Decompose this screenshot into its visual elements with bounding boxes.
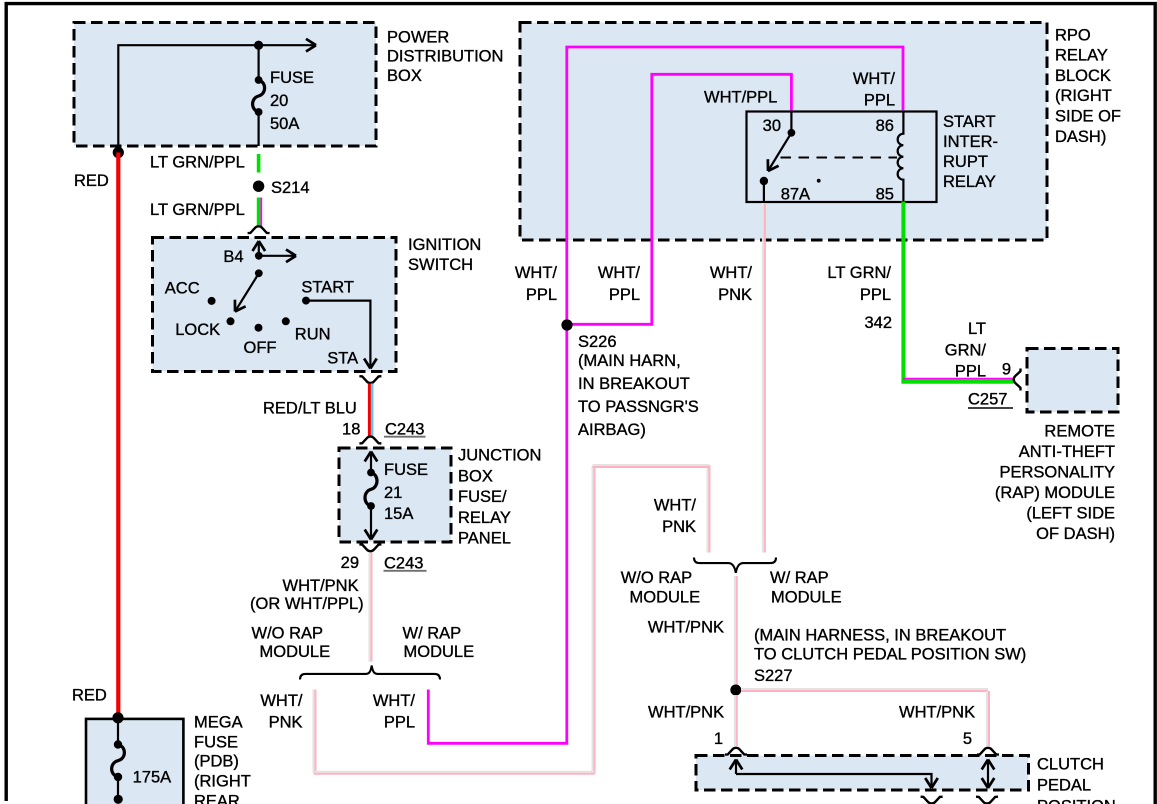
svg-text:WHT/PPL: WHT/PPL	[704, 89, 777, 107]
svg-text:REMOTE: REMOTE	[1044, 423, 1115, 441]
svg-text:START: START	[943, 113, 996, 131]
svg-text:C243: C243	[384, 555, 423, 573]
svg-text:W/O RAP: W/O RAP	[252, 625, 324, 643]
svg-text:B4: B4	[223, 248, 243, 266]
svg-text:SIDE OF: SIDE OF	[1055, 108, 1121, 126]
svg-text:15A: 15A	[384, 505, 413, 523]
svg-text:C257: C257	[968, 391, 1007, 409]
svg-text:C243: C243	[385, 420, 424, 438]
svg-text:IGNITION: IGNITION	[408, 236, 481, 254]
svg-text:RED/LT BLU: RED/LT BLU	[263, 400, 357, 418]
svg-text:POWER: POWER	[387, 28, 449, 46]
svg-text:ANTI-THEFT: ANTI-THEFT	[1019, 443, 1115, 461]
svg-text:PPL: PPL	[864, 92, 895, 110]
svg-text:PNK: PNK	[662, 518, 696, 536]
svg-text:GRN/: GRN/	[945, 342, 987, 360]
svg-text:FUSE: FUSE	[194, 733, 238, 751]
svg-text:LT GRN/PPL: LT GRN/PPL	[150, 201, 245, 219]
svg-text:PPL: PPL	[609, 286, 640, 304]
svg-text:W/ RAP: W/ RAP	[403, 625, 462, 643]
svg-text:20: 20	[270, 92, 288, 110]
svg-text:WHT/: WHT/	[654, 497, 697, 515]
svg-text:STA: STA	[327, 350, 358, 368]
svg-text:CLUTCH: CLUTCH	[1037, 756, 1104, 774]
svg-text:(MAIN HARNESS, IN BREAKOUT: (MAIN HARNESS, IN BREAKOUT	[754, 627, 1006, 645]
svg-text:PPL: PPL	[526, 286, 557, 304]
svg-text:MODULE: MODULE	[771, 589, 842, 607]
svg-text:(LEFT SIDE: (LEFT SIDE	[1026, 505, 1115, 523]
svg-text:5: 5	[963, 730, 972, 748]
svg-text:86: 86	[876, 117, 894, 135]
svg-text:50A: 50A	[270, 115, 299, 133]
svg-text:WHT/: WHT/	[515, 264, 558, 282]
svg-text:DISTRIBUTION: DISTRIBUTION	[387, 48, 503, 66]
svg-text:87A: 87A	[781, 186, 810, 204]
svg-text:175A: 175A	[133, 768, 172, 786]
svg-text:30: 30	[763, 117, 781, 135]
svg-text:W/O RAP: W/O RAP	[621, 569, 693, 587]
svg-text:LT GRN/: LT GRN/	[827, 264, 891, 282]
svg-text:WHT/: WHT/	[710, 264, 753, 282]
svg-text:PNK: PNK	[718, 286, 752, 304]
svg-text:IN BREAKOUT: IN BREAKOUT	[578, 375, 690, 393]
svg-text:MODULE: MODULE	[260, 643, 331, 661]
svg-text:OF DASH): OF DASH)	[1036, 525, 1115, 543]
svg-text:ACC: ACC	[165, 280, 200, 298]
svg-text:MODULE: MODULE	[404, 643, 475, 661]
svg-text:PPL: PPL	[384, 714, 415, 732]
svg-text:WHT/: WHT/	[598, 264, 641, 282]
svg-text:MEGA: MEGA	[194, 713, 243, 731]
svg-text:RELAY: RELAY	[943, 173, 996, 191]
svg-text:WHT/PNK: WHT/PNK	[899, 704, 975, 722]
svg-text:(RIGHT: (RIGHT	[194, 772, 251, 790]
svg-text:9: 9	[1002, 361, 1011, 379]
svg-text:JUNCTION: JUNCTION	[458, 447, 541, 465]
svg-text:MODULE: MODULE	[630, 589, 701, 607]
svg-text:85: 85	[876, 186, 894, 204]
svg-text:POSITION: POSITION	[1037, 798, 1116, 804]
svg-text:S227: S227	[754, 667, 793, 685]
svg-text:RELAY: RELAY	[458, 509, 511, 527]
svg-text:FUSE/: FUSE/	[458, 488, 507, 506]
svg-text:REAR: REAR	[194, 793, 240, 804]
svg-text:LT: LT	[968, 320, 986, 338]
svg-text:WHT/: WHT/	[260, 692, 303, 710]
svg-text:WHT/PNK: WHT/PNK	[648, 704, 724, 722]
svg-text:PERSONALITY: PERSONALITY	[999, 464, 1115, 482]
svg-text:FUSE: FUSE	[270, 69, 314, 87]
svg-text:PPL: PPL	[860, 286, 891, 304]
svg-text:W/ RAP: W/ RAP	[770, 569, 829, 587]
svg-text:WHT/PNK: WHT/PNK	[283, 577, 359, 595]
svg-text:PEDAL: PEDAL	[1037, 777, 1091, 795]
svg-text:OFF: OFF	[244, 339, 277, 357]
svg-text:(OR WHT/PPL): (OR WHT/PPL)	[250, 595, 364, 613]
svg-text:LT GRN/PPL: LT GRN/PPL	[150, 154, 245, 172]
svg-text:S214: S214	[271, 179, 310, 197]
svg-text:DASH): DASH)	[1055, 128, 1106, 146]
svg-text:FUSE: FUSE	[384, 461, 428, 479]
svg-text:RPO: RPO	[1055, 26, 1091, 44]
svg-text:21: 21	[384, 484, 402, 502]
svg-text:START: START	[301, 279, 354, 297]
svg-text:RELAY: RELAY	[1055, 47, 1108, 65]
svg-text:TO PASSNGR'S: TO PASSNGR'S	[578, 398, 699, 416]
svg-text:RED: RED	[74, 172, 109, 190]
svg-text:AIRBAG): AIRBAG)	[578, 421, 646, 439]
svg-text:RED: RED	[72, 687, 107, 705]
svg-text:WHT/PNK: WHT/PNK	[648, 619, 724, 637]
svg-text:LOCK: LOCK	[175, 321, 220, 339]
svg-text:INTER-: INTER-	[943, 133, 998, 151]
svg-text:1: 1	[714, 730, 723, 748]
svg-text:(PDB): (PDB)	[194, 752, 239, 770]
svg-text:(RAP) MODULE: (RAP) MODULE	[995, 484, 1115, 502]
svg-text:WHT/: WHT/	[853, 70, 896, 88]
svg-text:PANEL: PANEL	[458, 530, 511, 548]
svg-text:(RIGHT: (RIGHT	[1055, 87, 1112, 105]
svg-text:RUN: RUN	[295, 326, 331, 344]
svg-text:29: 29	[341, 554, 359, 572]
svg-text:PNK: PNK	[269, 714, 303, 732]
svg-text:BLOCK: BLOCK	[1055, 67, 1111, 85]
svg-text:18: 18	[342, 420, 360, 438]
svg-text:(MAIN HARN,: (MAIN HARN,	[578, 352, 681, 370]
svg-text:BOX: BOX	[387, 67, 422, 85]
svg-text:342: 342	[864, 314, 892, 332]
svg-text:TO CLUTCH PEDAL POSITION SW): TO CLUTCH PEDAL POSITION SW)	[754, 646, 1026, 664]
svg-text:RUPT: RUPT	[943, 153, 988, 171]
svg-text:BOX: BOX	[458, 467, 493, 485]
svg-text:SWITCH: SWITCH	[408, 256, 473, 274]
svg-text:PPL: PPL	[955, 363, 986, 381]
svg-text:S226: S226	[578, 333, 617, 351]
svg-text:WHT/: WHT/	[373, 692, 416, 710]
